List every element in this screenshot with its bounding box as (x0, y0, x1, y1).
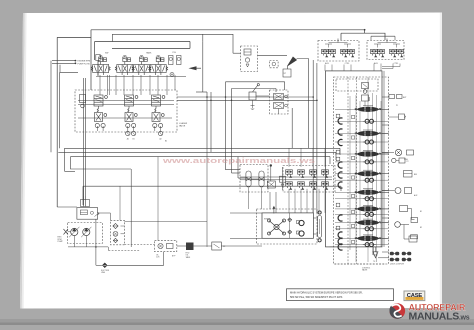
stack main relief (362, 95, 369, 101)
stack vertical feed lines (349, 96, 351, 250)
wire left long verticals (50, 61, 52, 153)
check valve hook (338, 172, 342, 178)
accumulator capsules with shuttles (246, 171, 251, 187)
up arrow steering (273, 208, 275, 214)
svg-text:www.autorepairmanuals.ws: www.autorepairmanuals.ws (161, 156, 315, 165)
stack bottom couplers wire (378, 257, 389, 259)
wire mid bus verticals left (64, 148, 66, 171)
stack spool 7 (355, 219, 381, 225)
svg-text:P.B.: P.B. (173, 52, 177, 54)
stack spool 1 (355, 106, 381, 112)
loader section 3 (152, 95, 165, 128)
svg-text:ENGINE RPM: ENGINE RPM (78, 60, 91, 62)
arrow pointer left (189, 66, 197, 70)
pump dashed enclosure (68, 223, 103, 244)
svg-text:CASE: CASE (407, 293, 423, 299)
tank funnel (373, 252, 378, 258)
pump P2 (81, 227, 91, 237)
wire mid-vertical x131 (130, 169, 132, 247)
pilot control box right (367, 41, 404, 60)
svg-text:B2: B2 (165, 141, 167, 143)
svg-text:P1: P1 (396, 105, 398, 107)
svg-text:SW: SW (105, 52, 108, 54)
wire bottom of steering to stack (330, 246, 335, 248)
svg-text:A1: A1 (127, 138, 129, 141)
tank symbol (186, 243, 194, 251)
check valve hook (338, 129, 342, 135)
valve bank bus lines (96, 76, 186, 78)
engine drive shaft (64, 229, 69, 235)
gauge symbol (170, 73, 174, 77)
accumulator capsule (318, 216, 322, 238)
pilot valve pilot control box right-4 (397, 49, 404, 57)
wire bank drop lines (99, 75, 101, 90)
check valve hook (338, 232, 342, 238)
svg-text:STEER: STEER (264, 219, 271, 221)
stack spool 6 (355, 205, 381, 211)
wire filter to brake box (221, 245, 262, 247)
pilot valve pilot control box right-3 (390, 49, 397, 57)
grid valve r1c4 (322, 170, 329, 178)
cyl block 1 (400, 206, 408, 212)
small dashed accumulator box (270, 61, 279, 68)
darker bottom band (0, 319, 474, 323)
valve stack outer box (326, 71, 383, 247)
stack spool 8 (355, 235, 381, 241)
stack pilot 4 (363, 178, 376, 182)
svg-text:LOADER: LOADER (179, 122, 188, 125)
pilot valve internals (244, 49, 251, 55)
pilot valve pilot control box left-3 (341, 49, 348, 57)
stack pilot 1 (363, 119, 376, 123)
wire upper-left jog (57, 36, 91, 38)
wire x=202 vertical (202, 42, 204, 92)
check valve hook (338, 139, 342, 145)
check valve hook (338, 162, 342, 168)
inlet section (80, 95, 86, 103)
coupler pair 2 (402, 252, 411, 255)
steering column horn symbol (287, 57, 296, 66)
valve V3 (132, 57, 151, 75)
coupler pair 4 (402, 258, 411, 261)
wire dashed return line (109, 250, 141, 252)
pilot valve pilot control box left-2 (329, 49, 336, 57)
wire top main bus (91, 29, 365, 31)
wire cooler-tank (177, 245, 186, 247)
wire to top-right pilot boxes (365, 30, 385, 40)
coupler pair 1 (390, 252, 399, 255)
wire grid buses (240, 176, 332, 178)
svg-text:TANK: TANK (186, 256, 191, 259)
white scanned page (20, 13, 442, 309)
stack horizontal row wires (335, 108, 388, 110)
wire pump to filter (98, 212, 111, 214)
wire right risers mid (339, 148, 341, 155)
stack right stubs (382, 96, 389, 98)
wire small left loop (60, 65, 78, 73)
svg-text:PUMP FLOW: PUMP FLOW (78, 63, 90, 65)
svg-text:TANK: TANK (146, 51, 152, 54)
svg-text:B1: B1 (133, 139, 135, 141)
grid dashed box (283, 166, 335, 193)
node engine-rpm labels (75, 60, 77, 62)
svg-text:B1: B1 (420, 211, 422, 213)
wire pilot box drops (324, 65, 326, 71)
relief valve left of bank (96, 55, 100, 61)
wire pilot valve to accumulator (258, 55, 288, 57)
check valve hook (338, 118, 342, 124)
pilot valve pilot control box left-4 (348, 49, 355, 57)
grid valve r2c2 (298, 182, 305, 190)
top valve bank frame (95, 41, 190, 43)
wire tank to filter box (194, 245, 212, 247)
svg-text:PUMP: PUMP (58, 241, 64, 243)
pilot supply valve dashed box (241, 46, 258, 72)
wire top box to pilot valve (112, 34, 233, 53)
title block (287, 289, 394, 301)
aux port pair (392, 158, 396, 162)
grid valve r1c1 (286, 170, 293, 178)
stack pilot 6 (363, 212, 376, 216)
grid valve r2c4 (322, 182, 329, 190)
grid valve r1c2 (298, 170, 305, 178)
stack pilot 7 (363, 227, 376, 231)
wire left riser from top bus (90, 30, 92, 90)
wire pump outputs (73, 236, 75, 244)
stack pilot 3 (363, 160, 376, 164)
grid valve r2c1 (286, 182, 293, 190)
brake check circles (299, 220, 304, 225)
brake valve solid box (262, 213, 313, 238)
grid valve r2c3 (310, 182, 317, 190)
boom lock valve (404, 171, 413, 178)
svg-text:580 SR Plus, 590 SR SIDESHIFT: 580 SR Plus, 590 SR SIDESHIFT PILOT 2WS (290, 295, 343, 299)
wire brake box feeds (269, 192, 271, 209)
wire drops into lower bank (99, 90, 101, 95)
pilot control box left (318, 41, 359, 62)
stack spool 3 (355, 151, 381, 157)
stack pilot 8 (363, 243, 376, 247)
4ws line (374, 247, 378, 255)
svg-text:QUICK COUPLER: QUICK COUPLER (390, 264, 405, 266)
CASE logo (404, 291, 425, 301)
stack inlet valve (362, 83, 369, 89)
grid valve r1c3 (310, 170, 317, 178)
valve V4 (149, 57, 168, 75)
loader control valve dashed enclosure (75, 90, 177, 132)
wire upper-mid verticals (206, 92, 208, 148)
wires entering brake box left (230, 212, 262, 214)
autorepairmanuals logo swoosh circle (389, 303, 405, 319)
port blocks right of stack (389, 95, 395, 99)
stack pilot 5 (363, 197, 376, 201)
lever pilot valve (249, 92, 256, 100)
svg-text:A2: A2 (160, 138, 162, 141)
filter capsules right of bank (169, 56, 174, 65)
pump P1 (69, 227, 79, 237)
wire bottom return bus (68, 246, 108, 248)
port circles row (126, 131, 130, 135)
pilot valve pilot control box left-1 (322, 49, 329, 57)
check valve hook (338, 215, 342, 221)
swing joint X (268, 219, 286, 235)
wire horn to right banks (297, 59, 309, 72)
svg-text:VALVE: VALVE (362, 269, 368, 272)
pump relief cartridge (80, 210, 87, 215)
suction line (95, 219, 97, 265)
wire mid bus 3 (71, 156, 331, 158)
check valve hook (338, 244, 342, 250)
return filter box (212, 242, 222, 250)
wire mid bus 1 (65, 147, 341, 149)
wire lower bank internal buses (78, 100, 174, 102)
wire bank to right area (177, 96, 313, 98)
solenoid top marks (99, 55, 102, 57)
loader section 2 (125, 95, 138, 128)
pedal valve dashed group (270, 90, 289, 114)
wire center nested box lines (225, 82, 227, 149)
stack pilot caps (352, 115, 355, 118)
check pair (395, 222, 401, 228)
oil cooler dashed box (155, 241, 177, 252)
wire manifold risers (288, 148, 290, 167)
pilot valve pilot control box right-1 (371, 49, 378, 57)
check diamond 2 (288, 230, 292, 234)
pump relief pilot box (81, 200, 90, 207)
wire down from bank to pump (83, 78, 85, 207)
cylinder top right (411, 235, 418, 239)
stack dashed inner walls (347, 77, 349, 264)
stack junction dots (376, 109, 378, 111)
stack bottom dashed exit (335, 263, 387, 265)
pilot manifold dashed box (240, 165, 268, 193)
wire horizontal y221 (124, 221, 207, 223)
wire box step to capsule (314, 218, 318, 234)
svg-text:MAIN HYDRAULIC SYSTEM EUROPE V: MAIN HYDRAULIC SYSTEM EUROPE VERSION FOR… (290, 290, 363, 294)
check diamond 1 (288, 218, 292, 222)
svg-text:P2: P2 (407, 161, 409, 163)
svg-text:VALVE: VALVE (179, 125, 186, 128)
svg-text:CTRL: CTRL (394, 63, 399, 65)
svg-text:CTRL: CTRL (345, 63, 350, 65)
shuttle 2 (259, 177, 264, 180)
valve stack dashed enclosure (334, 77, 389, 264)
wire riser x158 to cooler (157, 157, 159, 241)
mid check element (282, 167, 284, 190)
stack spool 2 (355, 130, 381, 136)
brake valve dashed box (257, 209, 318, 244)
filter dashed box (110, 220, 124, 244)
svg-text:B2: B2 (420, 227, 422, 229)
wire riser x120 to filter (119, 186, 121, 220)
stack spool 5 (355, 189, 381, 195)
valve V2 (115, 57, 134, 75)
stack pilot 2 (363, 140, 376, 144)
stack left small squares (336, 114, 340, 118)
motor with case drain (395, 188, 401, 194)
pilot valve pilot control box right-2 (378, 49, 385, 57)
pressure reducer mid (270, 164, 272, 166)
valve V1 (91, 57, 110, 75)
coupler pair 3 (390, 258, 399, 261)
wire return vertical x207 (206, 148, 208, 247)
filter F1 (113, 223, 118, 228)
check valve hook (338, 238, 342, 244)
filter F2 (113, 238, 117, 242)
stack top small manifold (336, 79, 378, 91)
pump block box (77, 208, 98, 220)
wire mid bus 2 (58, 151, 336, 153)
shuttle 1 (246, 177, 251, 180)
stack top right relief (399, 114, 405, 120)
wire ports below bank (96, 126, 98, 131)
check valve hook (338, 182, 342, 188)
swing motor symbol (395, 149, 401, 155)
stack spool 4 (355, 170, 381, 176)
wire mid bus 4 (83, 185, 341, 187)
suction filter diamond (102, 263, 107, 268)
loader section 1 (94, 95, 107, 128)
